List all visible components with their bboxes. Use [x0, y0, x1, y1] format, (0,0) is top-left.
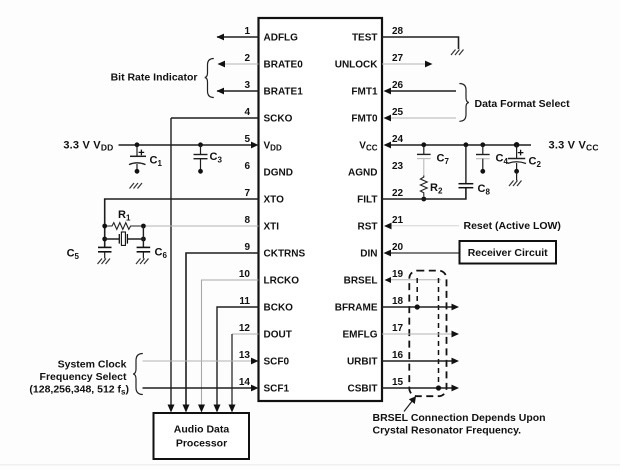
svg-text:2: 2: [244, 53, 250, 64]
note arrow to dashed box: [404, 400, 413, 412]
svg-text:BRSEL Connection Depends Upon: BRSEL Connection Depends Upon: [373, 412, 546, 424]
node VCC-C8: [464, 142, 469, 147]
svg-text:BCKO: BCKO: [264, 303, 294, 314]
svg-text:23: 23: [392, 161, 404, 172]
svg-text:BRATE1: BRATE1: [264, 87, 304, 98]
svg-text:ADFLG: ADFLG: [264, 33, 299, 44]
wire pin11 BCKO: [217, 307, 259, 406]
node XTO-R1: [102, 224, 107, 229]
note arrowhead: [409, 396, 416, 404]
svg-text:3: 3: [244, 80, 250, 91]
wire pin5 VDD supply: [119, 144, 253, 146]
svg-text:7: 7: [244, 188, 250, 199]
svg-text:RST: RST: [358, 222, 378, 233]
dashed wire BRSEL to CSBIT: [438, 278, 440, 386]
wire C7 to R2: [423, 159, 425, 177]
ground under C6: [136, 259, 149, 265]
capacitor C2 (polarized): [508, 145, 527, 181]
svg-text:Crystal Resonator Frequency.: Crystal Resonator Frequency.: [373, 425, 522, 437]
node VDD-C3: [198, 142, 203, 147]
svg-text:FMT0: FMT0: [351, 114, 378, 125]
wire pin22 FILT: [382, 188, 466, 200]
capacitor C3: [194, 145, 208, 174]
svg-text:22: 22: [392, 188, 404, 199]
svg-text:XTO: XTO: [264, 195, 285, 206]
svg-text:13: 13: [239, 350, 251, 361]
arrow pin19 into chip: [385, 277, 392, 283]
arrow pin20 into chip: [384, 250, 392, 257]
node VDD-C1: [135, 142, 140, 147]
left pin labels inside IC: [264, 33, 306, 395]
ground under C5: [98, 259, 111, 265]
wire XTI vertical to C6: [142, 226, 144, 247]
brace data format select: [459, 84, 468, 122]
arrow pin27 right: [425, 61, 433, 68]
svg-text:SCF0: SCF0: [264, 357, 290, 368]
wire crystal row: [105, 238, 144, 240]
svg-text:UNLOCK: UNLOCK: [335, 60, 379, 71]
dashed wire BRSEL to BFRAME: [416, 278, 418, 305]
wire SCKO vertical to processor: [170, 118, 172, 406]
arrow pin24 into chip: [384, 142, 392, 149]
svg-text:5: 5: [244, 134, 250, 145]
svg-text:19: 19: [392, 269, 404, 280]
capacitor C4: [476, 145, 490, 174]
arrow DOUT down: [229, 405, 236, 413]
svg-text:15: 15: [392, 377, 404, 388]
node XTI-crystal: [141, 237, 146, 242]
svg-text:FILT: FILT: [357, 195, 377, 206]
arrow pin25 into chip: [384, 115, 392, 122]
svg-text:FMT1: FMT1: [351, 87, 378, 98]
right pin labels inside IC: [335, 33, 379, 395]
node CSBIT-BRSEL: [436, 385, 441, 390]
svg-text:Audio Data: Audio Data: [174, 424, 230, 436]
wire pin25 FMT0 in: [389, 117, 456, 119]
page rule line: [0, 464, 620, 466]
crystal Y1: [119, 232, 127, 245]
svg-text:20: 20: [392, 242, 404, 253]
IC U1 body: [259, 18, 383, 401]
svg-text:AGND: AGND: [348, 168, 377, 179]
svg-text:16: 16: [392, 350, 404, 361]
svg-text:DOUT: DOUT: [264, 330, 292, 341]
wire pin17 EMFLG out: [382, 333, 453, 335]
arrow pin5 into chip: [251, 142, 259, 149]
node VCC-C4: [480, 142, 485, 147]
wire pin27 UNLOCK out: [382, 63, 426, 65]
svg-text:LRCKO: LRCKO: [264, 276, 300, 287]
wire pin21 RST: [391, 225, 459, 227]
svg-text:BFRAME: BFRAME: [335, 303, 378, 314]
resistor R1 zigzag: [107, 223, 141, 230]
arrow pin14 into chip: [251, 385, 259, 392]
wire pin3 BRATE1 out: [217, 90, 259, 92]
svg-text:BRATE0: BRATE0: [264, 60, 304, 71]
arrow BCKO down: [214, 405, 221, 413]
arrow pin21 into chip: [384, 223, 392, 230]
capacitor C6: [137, 247, 151, 258]
svg-text:25: 25: [392, 107, 404, 118]
node VCC-C7: [421, 142, 426, 147]
box receiver circuit: [460, 241, 557, 264]
arrow pin2 left: [218, 61, 226, 68]
brace system clock select: [133, 354, 143, 395]
wire pin28 TEST to ground: [382, 37, 459, 49]
wire pin15 CSBIT out: [382, 387, 453, 389]
wire pin13 SCF0 in: [143, 360, 253, 362]
wire pin20 DIN: [389, 252, 460, 254]
arrow URBIT right: [452, 358, 460, 365]
svg-text:10: 10: [239, 269, 251, 280]
wire pin19 BRSEL: [390, 279, 441, 281]
svg-text:XTI: XTI: [264, 222, 280, 233]
resistor R2 zigzag: [420, 176, 427, 197]
arrow pin3 left: [217, 88, 225, 95]
svg-text:Reset (Active LOW): Reset (Active LOW): [464, 220, 561, 232]
svg-text:9: 9: [244, 242, 250, 253]
node VCC-C2: [514, 142, 520, 148]
svg-text:24: 24: [392, 134, 404, 145]
capacitor C1 (polarized): [129, 145, 146, 174]
arrow EMFLG right: [452, 331, 460, 338]
wire pin26 FMT1 in: [389, 90, 456, 92]
svg-text:14: 14: [239, 377, 251, 388]
svg-text:URBIT: URBIT: [347, 357, 378, 368]
svg-text:System Clock: System Clock: [58, 359, 127, 371]
dashed box BRSEL options: [409, 271, 446, 397]
svg-text:21: 21: [392, 215, 404, 226]
svg-text:1: 1: [244, 26, 250, 37]
arrow pin13 into chip: [251, 358, 259, 365]
svg-text:27: 27: [392, 53, 404, 64]
node BFRAME-BRSEL: [415, 304, 420, 309]
svg-text:Receiver Circuit: Receiver Circuit: [468, 247, 548, 259]
svg-text:Frequency Select: Frequency Select: [40, 371, 127, 383]
wire pin16 URBIT out: [382, 360, 453, 362]
svg-text:SCKO: SCKO: [264, 114, 293, 125]
wire DOUT vertical: [231, 334, 233, 406]
ground TEST: [451, 50, 464, 56]
svg-text:6: 6: [244, 161, 250, 172]
wire pin9 CKTRNS: [186, 253, 259, 406]
ground under C2: [509, 181, 522, 187]
wire pin14 SCF1 in: [143, 387, 253, 389]
svg-text:Processor: Processor: [176, 438, 227, 450]
wire pin7 XTO out: [105, 199, 259, 247]
capacitor C5: [98, 247, 112, 258]
wire pin24 VCC supply: [389, 144, 531, 146]
svg-text:BRSEL: BRSEL: [344, 276, 378, 287]
left pin numbers: [239, 26, 251, 388]
arrow LRCKO down: [198, 405, 205, 413]
arrow BFRAME right: [452, 304, 460, 311]
svg-text:17: 17: [392, 323, 404, 334]
svg-text:Bit Rate Indicator: Bit Rate Indicator: [111, 72, 198, 84]
arrow SCKO down: [168, 405, 175, 413]
ground under C1: [130, 183, 143, 189]
arrow pin1 left: [217, 34, 225, 41]
svg-text:(128,256,348, 512 fs): (128,256,348, 512 fs): [29, 384, 129, 397]
svg-text:DGND: DGND: [264, 168, 293, 179]
svg-text:Data Format Select: Data Format Select: [475, 98, 571, 110]
right pin numbers: [392, 26, 404, 388]
svg-text:DIN: DIN: [360, 249, 377, 260]
capacitor C8: [459, 184, 474, 188]
capacitor C7: [417, 145, 431, 159]
wire pin12 DOUT: [232, 333, 259, 335]
svg-text:28: 28: [392, 26, 404, 37]
node XTO-crystal: [102, 237, 107, 242]
svg-text:SCF1: SCF1: [264, 384, 290, 395]
wire pin18 BFRAME out: [382, 306, 453, 308]
node XTI-R1: [141, 224, 146, 229]
svg-text:12: 12: [239, 323, 251, 334]
svg-text:EMFLG: EMFLG: [343, 330, 378, 341]
wire C8 top lead: [465, 145, 467, 184]
wire pin1 ADFLG out: [217, 36, 259, 38]
arrow CKTRNS down: [183, 405, 190, 413]
svg-text:CKTRNS: CKTRNS: [264, 249, 306, 260]
svg-text:8: 8: [244, 215, 250, 226]
svg-text:TEST: TEST: [352, 33, 378, 44]
wire pin2 BRATE0 out: [218, 63, 259, 65]
svg-text:26: 26: [392, 80, 404, 91]
node R2-FILT: [421, 197, 426, 202]
svg-text:11: 11: [239, 296, 250, 307]
arrow pin26 into chip: [384, 88, 392, 95]
svg-text:18: 18: [392, 296, 404, 307]
wire pin4 SCKO horizontal: [171, 117, 259, 119]
box audio data processor: [154, 413, 250, 459]
brace bit rate indicator: [205, 59, 214, 98]
svg-text:CSBIT: CSBIT: [348, 384, 378, 395]
svg-text:4: 4: [244, 107, 250, 118]
wire pin10 LRCKO: [202, 280, 259, 406]
wire pin8 XTI out: [143, 225, 258, 227]
arrow CSBIT right: [452, 385, 460, 392]
